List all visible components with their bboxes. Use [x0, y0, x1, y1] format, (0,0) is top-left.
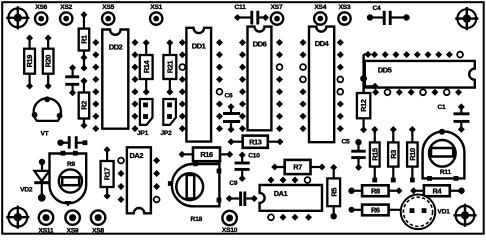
svg-text:R2: R2 [80, 101, 89, 110]
resistor R16 [179, 148, 234, 162]
svg-text:R15: R15 [370, 148, 379, 161]
connector XS7 [271, 4, 284, 25]
svg-text:DD2: DD2 [109, 42, 123, 51]
resistor R7 [271, 160, 325, 174]
mounting hole crosshair top-left [6, 6, 29, 29]
svg-text:R12: R12 [359, 99, 368, 112]
resistor R3 [388, 126, 398, 182]
IC DD6 [248, 27, 272, 131]
connector XS10 [222, 211, 238, 234]
svg-text:R14: R14 [142, 60, 151, 74]
IC DA1 [260, 185, 322, 211]
IC DD4 [309, 27, 334, 143]
resistor R12 [357, 93, 370, 133]
resistor R4 [410, 185, 465, 196]
resistor R13 [228, 136, 284, 148]
wire net at DD5 pin row left [360, 51, 378, 93]
connector XS3 [338, 4, 351, 25]
capacitor C5 [341, 139, 365, 171]
capacitor C1 [437, 103, 469, 132]
trimmer potentiometer R11 [423, 129, 465, 181]
svg-text:R9: R9 [67, 161, 76, 168]
svg-text:C6: C6 [224, 93, 233, 100]
svg-text:R21: R21 [165, 61, 174, 74]
connector XS8 [91, 210, 105, 234]
wire node below R1 [81, 59, 88, 72]
transistor VT [32, 96, 63, 137]
svg-text:VT: VT [40, 130, 48, 137]
svg-text:VD1: VD1 [437, 208, 450, 215]
svg-text:XS5: XS5 [102, 4, 114, 11]
resistor R19 [24, 35, 35, 90]
resistor R8 [348, 185, 402, 196]
resistor R14 [140, 39, 153, 95]
svg-text:R4: R4 [433, 186, 443, 195]
connector XS2 [60, 4, 73, 25]
resistor R17 [101, 146, 114, 199]
svg-text:DA2: DA2 [130, 151, 144, 160]
IC DA2 [127, 147, 151, 213]
svg-text:XS2: XS2 [60, 4, 72, 11]
svg-text:XS6: XS6 [35, 4, 47, 11]
svg-text:XS10: XS10 [222, 227, 238, 234]
capacitor C11 [234, 4, 269, 24]
trimmer potentiometer R18 [168, 161, 222, 222]
wire R16 to R18 [211, 161, 219, 200]
capacitor C6 [223, 93, 240, 134]
svg-text:JP1: JP1 [137, 130, 149, 137]
IC DD1 [186, 28, 211, 142]
diode VD1 [401, 195, 450, 230]
svg-text:VD2: VD2 [20, 186, 33, 193]
resistor R21 [163, 39, 176, 95]
svg-text:R16: R16 [200, 150, 213, 159]
svg-text:DA1: DA1 [274, 189, 288, 198]
svg-text:R20: R20 [44, 55, 53, 68]
IC DD2 [102, 30, 128, 129]
DD2 pin pads [92, 39, 138, 132]
mounting hole crosshair bottom-left [6, 206, 29, 229]
svg-text:R18: R18 [191, 216, 203, 223]
jumper JP1 [137, 99, 153, 137]
svg-text:R5: R5 [329, 188, 338, 197]
svg-text:XS1: XS1 [150, 4, 162, 11]
capacitor C9 [226, 180, 258, 206]
svg-text:C4: C4 [372, 5, 381, 12]
svg-text:XS9: XS9 [67, 228, 79, 235]
svg-text:R17: R17 [103, 168, 112, 181]
capacitor C4 [367, 5, 410, 25]
svg-text:XS7: XS7 [271, 4, 283, 11]
jumper JP2 [160, 99, 175, 137]
DD5 pin pads top row [371, 51, 463, 58]
DA1 pin pads [268, 177, 313, 221]
connector XS6 [35, 4, 48, 25]
svg-text:C10: C10 [248, 152, 260, 159]
svg-text:C5: C5 [341, 139, 350, 146]
svg-text:R1: R1 [80, 35, 89, 44]
connector XS11 [39, 210, 54, 234]
resistor R20 [43, 35, 54, 90]
svg-text:R13: R13 [249, 137, 262, 146]
svg-text:R11: R11 [440, 169, 452, 176]
svg-text:R10: R10 [408, 148, 417, 161]
resistor R10 [407, 126, 418, 182]
resistor R2 [79, 78, 90, 130]
connector XS9 [65, 210, 79, 234]
svg-text:DD1: DD1 [192, 41, 207, 50]
trimmer potentiometer R9 [50, 151, 87, 207]
svg-text:DD5: DD5 [378, 65, 393, 74]
svg-text:R6: R6 [371, 206, 380, 215]
capacitor C10 [235, 152, 261, 183]
DD6 pin pads [239, 39, 283, 132]
svg-text:C1: C1 [437, 104, 446, 111]
svg-text:R8: R8 [371, 186, 380, 195]
connector XS5 [102, 4, 115, 25]
mounting hole crosshair top-right [455, 7, 478, 30]
svg-text:JP2: JP2 [160, 130, 172, 137]
DD5 pin pads bottom row [372, 89, 462, 96]
resistor R6 [349, 205, 401, 216]
svg-text:R19: R19 [25, 55, 34, 68]
svg-text:XS8: XS8 [92, 228, 104, 235]
svg-text:R7: R7 [293, 163, 302, 172]
svg-text:XS3: XS3 [339, 4, 351, 11]
diode VD2 [20, 159, 49, 202]
capacitor Ca [65, 64, 79, 96]
node above R2 [81, 78, 88, 85]
resistor R5 [327, 164, 340, 220]
svg-text:DD6: DD6 [253, 40, 267, 49]
mounting hole crosshair bottom-right [453, 204, 476, 227]
DD1 pin pads [179, 39, 223, 132]
connector XS4 [314, 4, 327, 25]
DD4 pin pads [300, 39, 344, 132]
IC DD5 [365, 61, 475, 88]
DA2 pin pads [118, 157, 161, 203]
svg-text:R3: R3 [389, 150, 398, 159]
svg-text:DD4: DD4 [315, 39, 330, 48]
capacitor C2 [57, 136, 87, 161]
svg-text:C9: C9 [229, 180, 238, 187]
svg-text:C11: C11 [234, 4, 246, 11]
resistor R1 [79, 11, 90, 61]
resistor R15 [370, 126, 380, 182]
connector XS1 [150, 4, 163, 25]
svg-text:XS11: XS11 [39, 228, 54, 235]
svg-text:XS4: XS4 [314, 4, 326, 11]
